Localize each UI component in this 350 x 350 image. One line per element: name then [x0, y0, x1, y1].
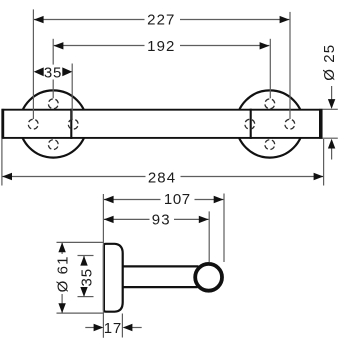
svg-text:Ø 61: Ø 61	[54, 255, 71, 292]
extension line D61 bottom	[57, 312, 105, 314]
extension line wall plane (107/93/17)	[102, 194, 104, 338]
dimension D61 top arrow	[58, 242, 65, 252]
left flange circle	[20, 90, 87, 157]
dimension 35 top arrow (side view)	[80, 256, 87, 266]
dimension 284 line	[2, 176, 145, 178]
bar left end cap	[1, 109, 4, 139]
side view bar cross-section	[195, 264, 222, 291]
dimension 227 left arrow	[34, 16, 44, 23]
dimension 227 line	[34, 19, 145, 21]
svg-text:17: 17	[104, 320, 122, 337]
svg-text:227: 227	[147, 11, 175, 28]
right flange screw hole bottom	[265, 140, 275, 150]
svg-text:192: 192	[147, 38, 175, 55]
left flange screw hole bottom	[48, 140, 58, 150]
side view wall flange	[104, 244, 123, 312]
dimension 17 left arrow	[85, 327, 94, 329]
right flange screw hole right	[285, 119, 295, 129]
extension line 93 right	[208, 211, 210, 262]
svg-text:Ø 25: Ø 25	[321, 44, 338, 81]
dimension D25 extension top	[323, 108, 338, 110]
dimension 107 line	[104, 199, 161, 201]
svg-text:35: 35	[78, 268, 95, 286]
dimension 93 left arrow	[104, 216, 114, 223]
dimension D25 upper arrow	[331, 86, 333, 100]
extension line right flange center (192)	[269, 39, 271, 99]
left bar joint line	[70, 109, 72, 139]
dimension D61 bottom arrow	[58, 303, 65, 313]
extension line 35 top (side view)	[78, 255, 94, 257]
dimension 284 left arrow	[2, 173, 12, 180]
extension line 35 bottom (side view)	[78, 296, 94, 298]
bar body	[2, 110, 321, 138]
side view arm top edge	[123, 265, 199, 267]
extension line left outer (227/35)	[32, 9, 34, 119]
dimension 35 line (side view)	[83, 256, 85, 263]
dimension 17 right arrow	[132, 327, 142, 329]
svg-text:93: 93	[152, 211, 171, 228]
extension line 17 right	[121, 314, 123, 338]
dimension 35 right arrow	[62, 67, 72, 76]
dimension 35 left arrow	[34, 67, 44, 76]
extension line 284 right	[323, 139, 325, 186]
dimension 284 right arrow	[314, 173, 324, 180]
right flange screw hole top	[265, 99, 275, 109]
extension line D61 top	[57, 241, 105, 243]
extension line left flange center (192)	[52, 39, 54, 65]
left flange screw hole left	[28, 119, 38, 129]
extension line right outer (227)	[289, 12, 291, 119]
dimension 227 right arrow	[280, 16, 290, 23]
right flange circle	[236, 90, 303, 157]
dimension D61 line	[61, 243, 63, 254]
dimension 192 line	[54, 45, 145, 47]
right bar joint line	[250, 109, 252, 139]
dimension 107 left arrow	[104, 196, 114, 203]
bar right end cap	[319, 109, 322, 139]
dimension 93 right arrow	[199, 216, 209, 223]
extension line 284 left	[1, 139, 3, 186]
extension line 107 right	[223, 194, 225, 263]
dimension 192 left arrow	[54, 42, 64, 49]
left flange screw hole right	[68, 119, 78, 129]
left flange screw hole top	[48, 99, 58, 109]
svg-text:284: 284	[148, 169, 176, 186]
dimension 107 right arrow	[214, 196, 224, 203]
svg-text:35: 35	[44, 64, 62, 81]
dimension 192 right arrow	[260, 42, 270, 49]
dimension D25 extension bottom	[323, 137, 338, 139]
side view arm bottom edge	[123, 286, 198, 288]
dimension 93 line	[104, 218, 150, 220]
dimension D25 lower arrow	[331, 147, 333, 160]
extension line 35 right	[71, 64, 73, 120]
svg-text:107: 107	[164, 191, 191, 208]
dimension 35 bottom arrow (side view)	[80, 287, 87, 297]
right flange screw hole left	[245, 119, 255, 129]
